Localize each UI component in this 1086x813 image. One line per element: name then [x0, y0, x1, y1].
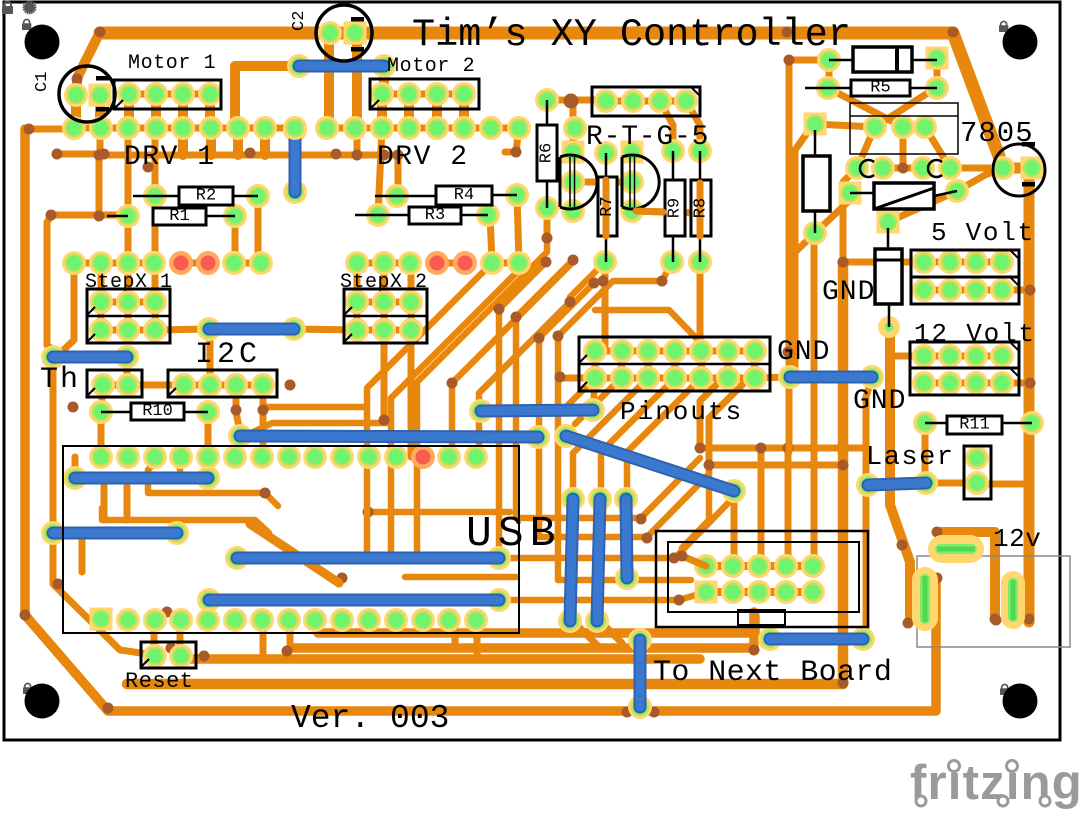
R2 pads: [143, 184, 270, 208]
svg-text:C2: C2: [290, 11, 309, 31]
label Ver. 003: [291, 700, 449, 737]
R10 pads: [89, 400, 220, 424]
notch th: [87, 388, 95, 396]
notch reset: [141, 659, 149, 667]
wire tnb col 734: [731, 491, 738, 566]
header 12Volt outline: [910, 342, 1019, 395]
mounting hole bottom-left: [25, 684, 60, 719]
wire fan-a F: [499, 262, 546, 558]
notch stepx1: [87, 307, 95, 342]
wire 7805 sq tie: [815, 124, 875, 127]
R11 pads: [913, 411, 1044, 435]
usb inner v1: [79, 533, 86, 572]
7805 pads: [863, 115, 937, 139]
wire i2c pads tie: [184, 382, 263, 389]
header I2C outline: [168, 370, 277, 397]
usb inner hc: [363, 507, 511, 518]
connector ToNextBoard outline: [656, 531, 868, 627]
Q2 pads: [620, 141, 644, 224]
wire bus B3: [181, 654, 700, 664]
label To Next Board: [653, 656, 892, 690]
notch i2c: [168, 388, 176, 396]
jumper W13: [585, 487, 612, 633]
header Th outline: [87, 370, 142, 397]
svg-text:fritzing: fritzing: [910, 756, 1083, 810]
wire stepx1 row ties: [101, 302, 155, 330]
wire gnd-laser-tnb vertical: [866, 377, 872, 638]
stepx2 header pads: [345, 290, 423, 342]
jumper W18: [856, 471, 938, 497]
wire usbright h4: [558, 577, 691, 584]
svg-text:I2C: I2C: [195, 338, 261, 372]
th pads: [91, 373, 140, 397]
svg-text:5 Volt: 5 Volt: [931, 218, 1035, 248]
wire 12v row1 feed: [889, 353, 924, 360]
transistor Q1: [560, 155, 597, 209]
svg-text:R8: R8: [692, 198, 711, 218]
wire tnb stub feed: [682, 465, 709, 556]
reset pads: [143, 644, 193, 668]
notch rtg: [691, 87, 700, 96]
wire C1 pads down: [76, 95, 100, 128]
wire top bus: [100, 33, 1029, 622]
asterisk icon top-left: [22, 0, 37, 18]
usb inner stub: [177, 457, 184, 477]
usb inner hd: [337, 573, 518, 584]
svg-text:R10: R10: [142, 402, 173, 421]
wire d2pad diag: [790, 233, 815, 257]
resistor R2: [133, 187, 258, 206]
R5 pads: [816, 76, 949, 100]
wire R8 interior: [636, 183, 711, 236]
svg-text:Tim’s XY Controller: Tim’s XY Controller: [412, 13, 851, 57]
svg-text:Th: Th: [40, 363, 80, 397]
diode D2: [803, 130, 830, 233]
svg-text:Ver. 003: Ver. 003: [291, 700, 449, 737]
wire laser tie: [926, 480, 977, 487]
capacitor C3 outline: [993, 142, 1045, 196]
label Motor 1: [128, 52, 216, 75]
notch pinouts: [579, 355, 587, 390]
wire th col down: [101, 385, 103, 457]
to220 pads: [845, 156, 962, 180]
motor 2 pin stubs: [382, 94, 464, 128]
bottom row stubs: [154, 621, 622, 659]
resistor R4: [375, 186, 517, 205]
wire band stubs: [183, 128, 265, 155]
svg-text:R4: R4: [454, 186, 474, 205]
header StepX2 outline: [344, 289, 427, 343]
wire fan-b 2: [575, 378, 621, 424]
wire RTG p3 elbow: [660, 101, 673, 151]
wire bottom right riser: [931, 580, 941, 711]
header Reset outline: [141, 642, 196, 668]
motor 1 pin stubs: [129, 94, 210, 128]
12v smd pad left: [912, 567, 938, 631]
diode D3: [850, 183, 957, 209]
wire DRV1 band: [52, 129, 399, 194]
jumper W7: [554, 424, 746, 503]
wire 7805 p2 down: [900, 127, 907, 168]
wire R6 bottom stub: [544, 208, 551, 238]
12v header pads: [912, 344, 1014, 395]
wire red pads tie 2: [437, 260, 465, 267]
wire r11l down: [922, 423, 929, 483]
wire usbright h3: [499, 497, 734, 558]
rtg header pads: [594, 89, 698, 113]
wire R1L down: [125, 216, 132, 262]
lock icon hole TL: [22, 19, 31, 30]
jumper W8: [225, 546, 511, 570]
usb module outline: [63, 446, 519, 633]
jumper W11: [63, 466, 220, 490]
wire R8 col down: [697, 262, 704, 351]
fritzing logo: [910, 756, 1083, 810]
cap C3 pads: [991, 156, 1044, 180]
label StepX 1: [85, 271, 173, 294]
notch motor2: [370, 100, 379, 109]
svg-text:R11: R11: [959, 416, 990, 435]
svg-text:C1: C1: [33, 72, 52, 92]
wire nested L outer: [700, 378, 866, 448]
label R-T-G-5 gnd: [0, 0, 1, 1]
wire jumper11 stub: [72, 457, 79, 478]
wire rtg tie: [606, 98, 686, 105]
svg-text:✺: ✺: [22, 0, 37, 18]
wire fan-a exit1: [267, 404, 367, 411]
wire pinouts feed h: [595, 310, 699, 351]
wire R1 tie left: [51, 212, 128, 219]
wire bus B4: [127, 262, 843, 684]
wire Q mid tie: [573, 179, 632, 186]
stepx2 col stubs: [357, 262, 411, 330]
12v jack outline: [917, 556, 1070, 647]
wire R3L up: [378, 128, 382, 215]
wire to220 to cap: [950, 165, 1006, 172]
label Motor 2: [387, 55, 475, 78]
wire fan-a A: [367, 263, 492, 552]
wire R6 top tie: [547, 97, 606, 104]
wire left gnd col: [47, 215, 155, 655]
wire r10r down: [205, 412, 212, 478]
wire th pads tie: [103, 382, 128, 389]
wire 12v to bus: [1002, 380, 1030, 387]
wire fan-a G: [516, 260, 573, 518]
wire d1-r5 right tie: [934, 58, 941, 88]
notch stepx2: [344, 307, 352, 342]
wire d3 diag: [888, 191, 957, 222]
wire tnb row1 tie: [706, 562, 813, 570]
wire RTG p4 elbow: [686, 101, 700, 151]
wire pinouts row ties: [560, 351, 755, 378]
resistor R6: [537, 100, 557, 208]
label Laser: [866, 443, 955, 473]
R9 pads: [660, 139, 685, 274]
wire fan-a D: [452, 262, 573, 457]
wire R1R down: [232, 216, 239, 262]
wire jumper J1 feed: [235, 66, 296, 128]
svg-text:GND: GND: [777, 337, 830, 368]
pad row drv1: [62, 116, 307, 140]
usb inner v3: [124, 486, 131, 520]
12v smd pad right: [1001, 571, 1025, 629]
motor2 pads: [370, 82, 476, 106]
wire fan-a B: [391, 263, 519, 552]
wire fan-a C: [417, 240, 547, 552]
label I2C: [195, 338, 261, 372]
wire fuse col: [890, 327, 910, 620]
wire 7805 sq down: [790, 126, 812, 377]
capacitor C2 outline: [316, 5, 372, 61]
stepx1 col stubs: [101, 262, 155, 330]
label Pinouts: [620, 397, 743, 427]
pad row stepx-1: [62, 251, 273, 275]
pad row drv2: [315, 116, 587, 140]
wire fan-a I: [558, 262, 672, 580]
svg-text:R-T-G-5: R-T-G-5: [586, 122, 709, 153]
svg-text:R6: R6: [538, 143, 557, 163]
wire fan-a exit2: [247, 423, 391, 435]
wire to220 gnd elbow: [843, 168, 857, 262]
svg-text:7805: 7805: [960, 117, 1034, 150]
svg-text:To Next Board: To Next Board: [653, 656, 892, 690]
R8 pads: [688, 139, 712, 274]
wire stepx2 row ties: [357, 302, 411, 330]
svg-text:12v: 12v: [993, 524, 1041, 554]
wire row262 ties: [74, 260, 519, 267]
12v smd pad top: [928, 535, 984, 563]
header Laser outline: [964, 446, 991, 499]
wire R7 interior: [598, 180, 617, 236]
svg-text:StepX 2: StepX 2: [340, 271, 428, 294]
resistor R3: [355, 206, 488, 225]
wire 5v to bus: [1002, 287, 1030, 294]
wire fan-b 4: [601, 378, 675, 499]
wire R7 down: [602, 262, 609, 351]
diode D1: [829, 47, 937, 72]
label GND pinouts: [777, 337, 830, 368]
label DRV 2: [377, 142, 469, 173]
wire usbright h2: [539, 474, 709, 537]
tnb pads: [694, 554, 825, 604]
label DRV 1: [124, 142, 216, 173]
wire pinouts gnd tie: [755, 377, 790, 378]
wire R2R down: [255, 196, 262, 262]
R4 pads: [385, 183, 529, 208]
svg-text:R9: R9: [666, 198, 685, 218]
wire d1 tie left: [789, 57, 829, 64]
wire row128 tie A: [74, 125, 295, 132]
fuse F1: [875, 228, 902, 327]
svg-text:Reset: Reset: [125, 669, 194, 694]
jumper W4: [41, 345, 139, 369]
pinouts row tie stubs: [595, 351, 755, 378]
wire R1L up: [125, 128, 132, 216]
wire usbright h5: [499, 592, 706, 600]
label 12v: [993, 524, 1041, 554]
wire jumper to stepx2: [294, 329, 357, 330]
R3 pads: [366, 203, 500, 227]
wire bus B1: [318, 616, 755, 633]
label StepX 2: [340, 271, 428, 294]
lock icon hole BR: [1000, 684, 1009, 695]
wire 7805 p1 down: [857, 127, 875, 168]
wire 12v row1 tie: [924, 353, 1002, 360]
wire d3 sq diag: [815, 199, 851, 233]
wire motor2 pin1 stub: [379, 66, 389, 94]
wire red pads tie 1: [181, 260, 208, 267]
svg-text:R3: R3: [425, 206, 445, 225]
wire stepx2 down2: [408, 330, 415, 457]
wire tnb col 814: [811, 234, 818, 566]
usb inner ha: [148, 462, 278, 506]
usb bottom row pads: [90, 608, 489, 633]
jumper W1: [287, 54, 396, 78]
label GND mid: [853, 386, 906, 417]
title text: [412, 13, 851, 57]
resistor R5: [805, 79, 937, 98]
top diode D1 pads: [817, 47, 949, 73]
lock icon hole TR: [999, 21, 1008, 32]
jumper W10: [41, 521, 189, 545]
wire to220 row tie: [883, 165, 923, 172]
resistor R11: [925, 416, 1032, 435]
label 5 Volt: [931, 218, 1035, 248]
jumper W17: [778, 365, 884, 389]
wire tnb col 788: [783, 443, 794, 568]
wire bus B2: [292, 612, 754, 648]
wire 5v feed: [843, 259, 924, 266]
svg-text:Motor 2: Motor 2: [387, 55, 475, 78]
label C2: [290, 11, 309, 31]
svg-text:R1: R1: [169, 207, 189, 226]
wire R2L down: [152, 196, 159, 262]
wire d3r up: [957, 168, 1003, 191]
transistor Q2: [622, 155, 659, 209]
wire stepx2 down1: [381, 330, 388, 420]
wire i2c p2 up: [207, 329, 214, 385]
wire motor2 tie: [382, 91, 464, 98]
wire drv1 col1: [96, 155, 103, 216]
label Reset: [125, 669, 194, 694]
pinouts pads: [583, 339, 767, 390]
jumper W6: [469, 398, 605, 423]
wire C2 left down: [324, 33, 334, 127]
vias: [20, 27, 1036, 718]
wire laser right tie: [979, 481, 1030, 488]
header Motor2 outline: [370, 79, 479, 109]
wire th to i2c: [128, 382, 184, 389]
resistor R7: [598, 153, 617, 262]
wire w6pad up: [593, 378, 595, 410]
svg-text:Laser: Laser: [866, 443, 955, 473]
capacitor C1 outline: [59, 66, 115, 122]
wire r5 diag: [828, 88, 903, 127]
wire R4R down: [517, 196, 519, 262]
wire 12v row2 tie: [924, 380, 1002, 387]
i2c pads: [172, 373, 275, 397]
wire left ring to row: [25, 126, 74, 133]
capacitor C1 pads: [64, 83, 112, 107]
svg-text:DRV 1: DRV 1: [124, 142, 216, 173]
wire left ring vertical: [25, 129, 934, 711]
diode D3 pads: [839, 179, 970, 205]
wire 5v row2 tie: [924, 287, 1002, 294]
header Pinouts outline: [579, 337, 770, 391]
wire tnb row2 tie: [706, 588, 813, 596]
wire row128 tie B: [327, 125, 519, 132]
wire jack feed right: [937, 532, 995, 619]
header RTG outline: [592, 87, 700, 116]
wire nested L inner: [709, 378, 843, 465]
mounting hole top-left: [25, 25, 60, 60]
label 7805: [960, 117, 1034, 150]
mounting hole bottom-right: [1003, 684, 1038, 719]
svg-text:Motor 1: Motor 1: [128, 52, 216, 75]
diode D2 pads: [803, 113, 827, 246]
wire motor1 tie: [129, 91, 210, 98]
svg-text:R7: R7: [598, 196, 617, 216]
wire Q2 bottom tie: [633, 211, 700, 213]
wire fan-a H: [539, 283, 594, 537]
laser pads: [965, 446, 989, 495]
mounting hole top-right: [1003, 25, 1038, 60]
resistor R9: [665, 151, 685, 262]
wire row262 left down: [56, 263, 74, 357]
header 5Volt outline: [911, 250, 1019, 304]
svg-text:DRV 2: DRV 2: [377, 142, 469, 173]
resistor R8: [691, 151, 711, 262]
wire fan-b 5: [627, 378, 701, 499]
jumper W2: [283, 118, 307, 204]
usb diag mid: [250, 524, 339, 583]
usb inner v2: [101, 481, 108, 520]
wire R2L up: [152, 128, 159, 196]
regulator 7805 outline: [850, 103, 958, 177]
label Th: [40, 363, 80, 397]
R7 pads: [593, 141, 618, 274]
lock icon hole BL: [23, 683, 32, 694]
jumper W3: [197, 317, 306, 341]
wire drv2 stub1: [354, 128, 361, 155]
svg-text:12 Volt: 12 Volt: [914, 319, 1036, 349]
wire fan-a E: [479, 262, 605, 457]
wire stepx1 to jumper: [155, 329, 209, 330]
usb top row pads: [89, 445, 488, 469]
label C1: [33, 72, 52, 92]
wire i2c p4 down: [260, 385, 267, 457]
wire R3R down: [490, 215, 492, 262]
resistor R10: [101, 402, 208, 421]
wire 5v row1 tie: [924, 259, 1002, 266]
wire th tie: [124, 357, 131, 385]
wire usbright h1: [516, 458, 700, 518]
wire tnb col 789: [786, 60, 793, 452]
svg-text:USB: USB: [466, 509, 561, 558]
R1 pads: [116, 204, 247, 228]
label GND top: [822, 277, 875, 308]
svg-text:R5: R5: [870, 79, 890, 98]
jumper W16: [758, 627, 875, 651]
fuse pads: [877, 211, 901, 339]
wire C2 right down: [352, 33, 362, 127]
wire tnb inner stub: [677, 551, 707, 567]
svg-text:GND: GND: [853, 386, 906, 417]
jumper W9: [197, 588, 511, 612]
wire pad519 elbow: [505, 128, 519, 152]
wire fan-b 1: [561, 378, 595, 412]
pad row stepx-2: [345, 251, 531, 275]
